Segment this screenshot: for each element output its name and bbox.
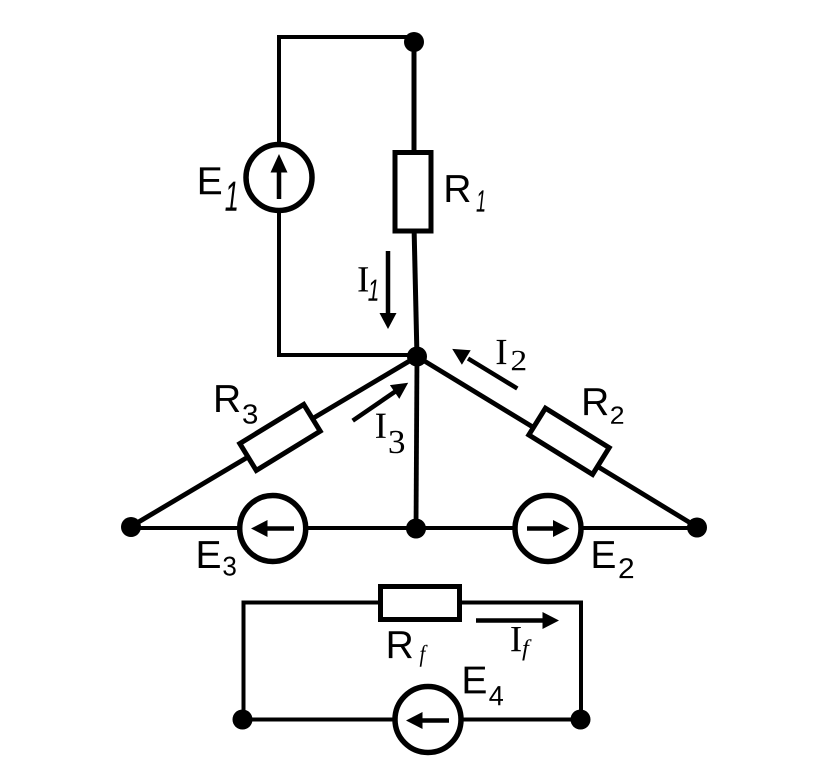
node F left	[233, 710, 253, 730]
label E4	[465, 667, 503, 706]
node E bottom-right	[687, 518, 707, 538]
node D bottom-middle	[406, 519, 426, 539]
node A top	[404, 32, 424, 52]
node C bottom-left	[121, 517, 141, 537]
label E3	[199, 541, 236, 576]
wire diagonal right R2 branch	[417, 357, 697, 528]
label R2	[584, 388, 623, 424]
wire E1 bottom horizontal	[279, 353, 417, 357]
label If	[511, 627, 531, 661]
label Rf	[389, 631, 428, 667]
wire E1 left vertical	[277, 35, 281, 357]
wire R1 to central node	[414, 225, 417, 357]
source E3	[240, 496, 306, 562]
wire bottom-loop left	[242, 601, 246, 720]
current arrow I2	[452, 349, 517, 389]
source E4	[395, 687, 461, 753]
wire bottom-loop right	[579, 601, 583, 720]
source E2	[515, 496, 581, 562]
label R3	[216, 385, 257, 424]
wire central vertical down	[416, 355, 417, 529]
label I3	[376, 414, 404, 454]
resistor Rf	[381, 587, 460, 620]
node B central	[407, 347, 427, 367]
resistor R2	[529, 408, 609, 474]
wire R1 branch vertical	[412, 40, 417, 160]
wire top horizontal	[279, 35, 414, 39]
wire bottom-loop bottom	[244, 718, 582, 722]
wire bottom rail	[131, 526, 697, 530]
resistor R1	[395, 153, 431, 232]
label R1	[446, 175, 484, 211]
source E1	[246, 145, 312, 211]
wire bottom-loop top	[244, 601, 582, 605]
current arrow I3	[353, 383, 409, 421]
current arrow I1	[380, 251, 397, 329]
label E1	[200, 167, 237, 210]
node G right	[571, 710, 591, 730]
label E2	[594, 541, 634, 578]
wire diagonal left R3 branch	[131, 357, 417, 527]
current arrow If	[476, 612, 559, 629]
label I1	[358, 267, 377, 300]
resistor R3	[240, 404, 320, 470]
label I2	[497, 340, 526, 370]
